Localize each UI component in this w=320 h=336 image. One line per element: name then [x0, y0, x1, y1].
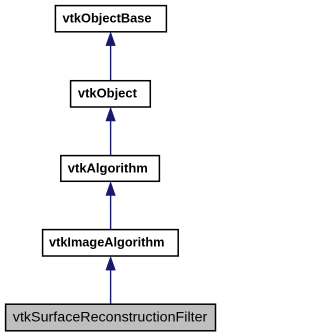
node vtkObjectBase: [55, 6, 166, 32]
node vtkAlgorithm: [61, 156, 160, 182]
svg-text:vtkObject: vtkObject: [78, 86, 138, 101]
inheritance arrow vtkObject to vtkObjectBase: [106, 32, 115, 80]
inheritance arrow vtkSurfaceReconstructionFilter to vtkImageAlgorithm: [106, 257, 115, 305]
node vtkImageAlgorithm: [43, 230, 179, 256]
node vtkObject: [71, 81, 151, 107]
svg-text:vtkImageAlgorithm: vtkImageAlgorithm: [49, 235, 165, 250]
svg-text:vtkObjectBase: vtkObjectBase: [63, 11, 152, 26]
inheritance arrow vtkAlgorithm to vtkObject: [106, 108, 115, 156]
svg-text:vtkSurfaceReconstructionFilter: vtkSurfaceReconstructionFilter: [13, 309, 208, 324]
node vtkSurfaceReconstructionFilter (current class, grey): [6, 304, 216, 331]
svg-text:vtkAlgorithm: vtkAlgorithm: [68, 161, 148, 176]
inheritance arrow vtkImageAlgorithm to vtkAlgorithm: [106, 182, 115, 230]
